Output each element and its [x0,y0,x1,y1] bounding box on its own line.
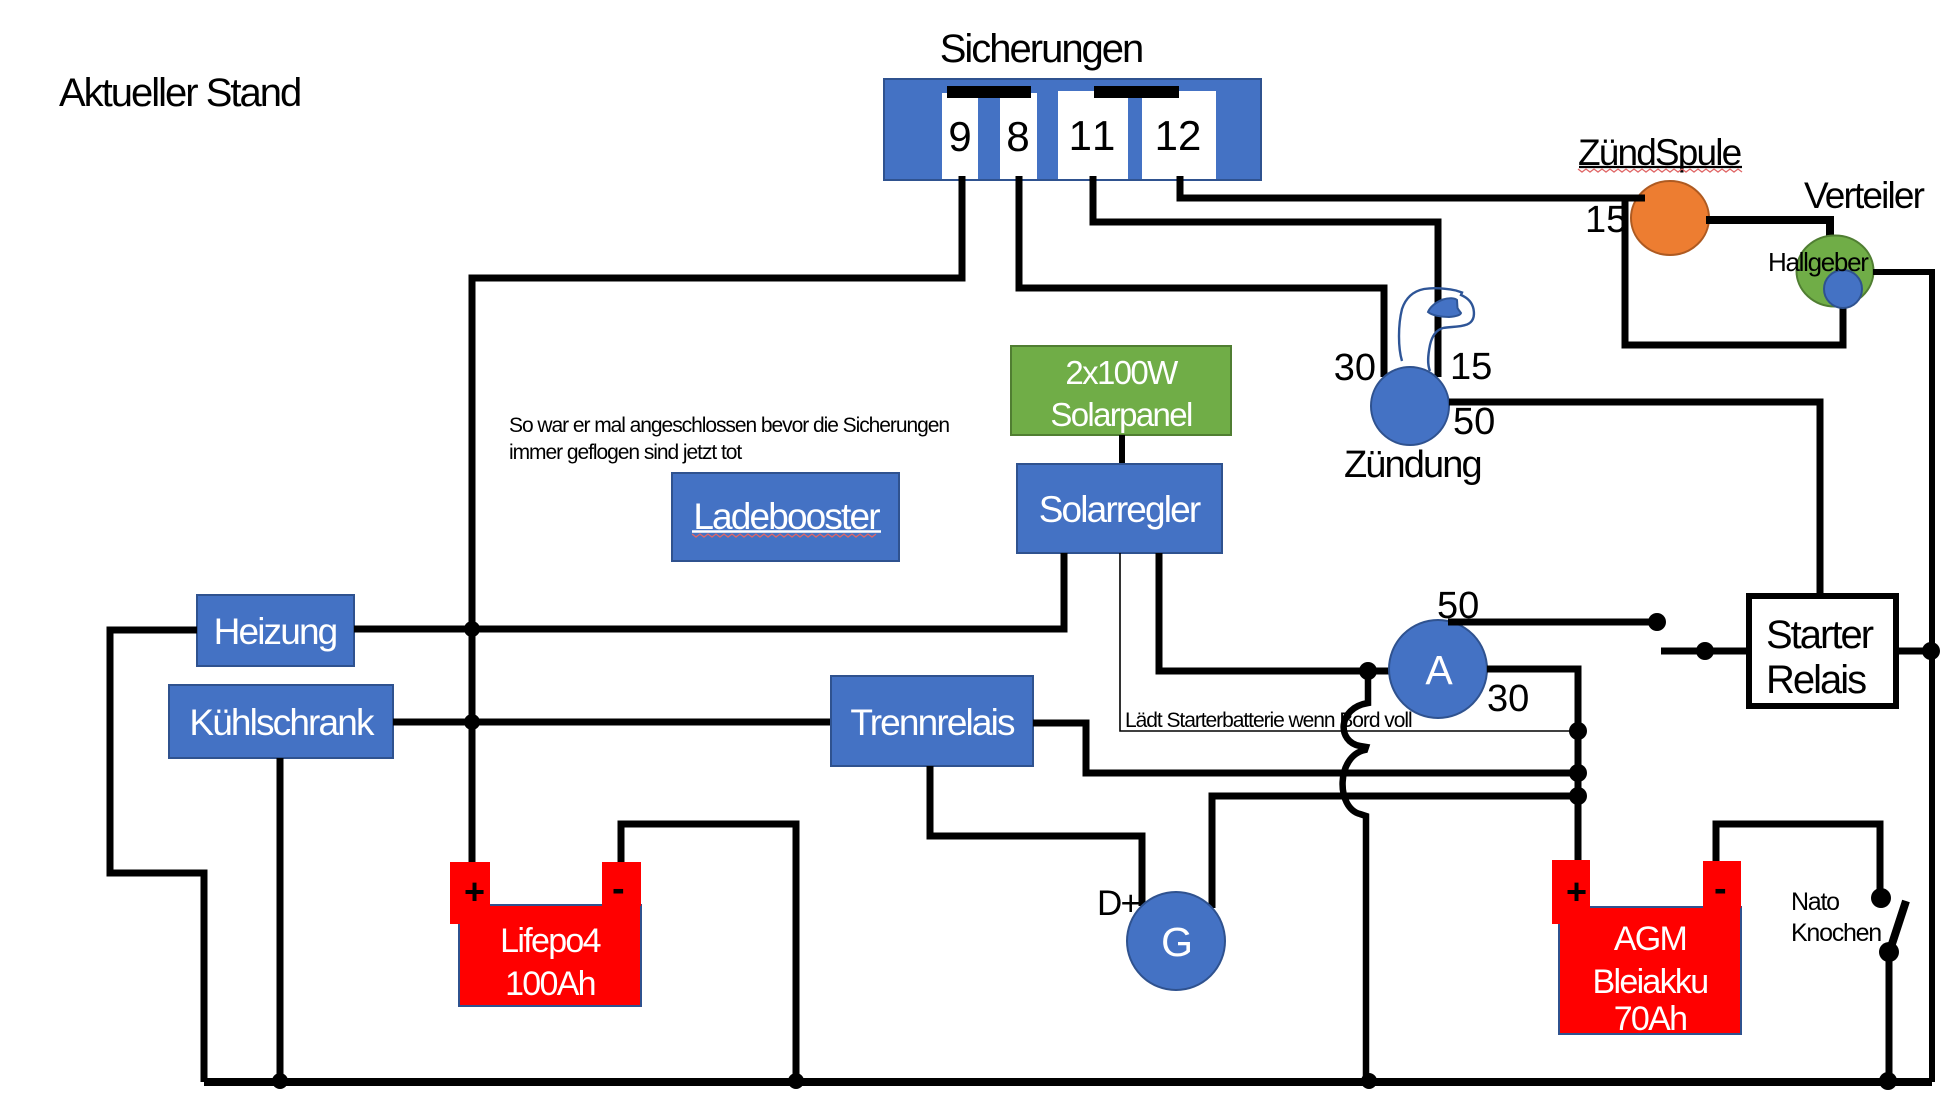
underline Ladebooster [692,530,881,532]
svg-text:Kühlschrank: Kühlschrank [189,702,375,743]
wire ammeter right to AGM plus [1487,669,1578,863]
svg-text:D+: D+ [1097,884,1140,923]
trennrelais box [831,676,1033,766]
wire end over coil [1620,195,1645,202]
wire Hallgeber to right rail [1873,272,1932,1082]
svg-text:Lädt Starterbatterie wenn Bord: Lädt Starterbatterie wenn Bord voll [1125,709,1412,732]
wire fuse12 to ZuendSpule [1180,176,1627,198]
wire heizung right to solarregler [354,553,1064,629]
junction dot starter rail [1922,642,1940,660]
svg-text:Solarregler: Solarregler [1039,489,1201,530]
svg-text:Aktueller Stand: Aktueller Stand [59,71,300,115]
wire panel to regler [1119,435,1125,464]
switch lever nato [1890,901,1906,950]
fuse bar 11-12 [1094,86,1179,98]
switch contact dot upper [1648,613,1666,631]
solar panel box [1011,346,1231,435]
wire kuehlschrank bottom to rail [277,758,284,1082]
svg-text:+: + [464,871,484,912]
lifepo4 plus tab [450,862,490,924]
switch segment to starter relais [1661,648,1749,655]
wire nato switch to rail [1886,952,1893,1082]
svg-text:Starter: Starter [1766,613,1874,657]
wire trennrelais bottom to G [930,766,1142,906]
svg-text:Heizung: Heizung [214,611,337,652]
switch dot nato bottom [1879,942,1899,962]
junction dot hop rail [1361,1073,1377,1089]
ignition circle Zuendung [1371,367,1449,445]
wire trennrelais right [1033,723,1578,773]
wire fuse8 to Zuendung 30 [1019,176,1384,377]
junction dot kuehlschrank rail [272,1073,288,1089]
fuse box body [884,79,1261,180]
junction dot kuehlschrank wire [464,714,480,730]
label 30 at Zuendung [1335,354,1374,381]
svg-text:G: G [1161,919,1191,965]
svg-text:+: + [1566,871,1586,912]
bottom rail [204,1078,1932,1086]
wire lifepo4 minus to rail [621,824,796,1082]
starter relais box [1749,596,1896,706]
wire starter relais right to rail [1896,648,1932,655]
junction dot heizung wire [464,621,480,637]
wire fuse11 to Zuendung 15 [1093,176,1438,377]
junction dot before ammeter [1359,662,1377,680]
hallgeber circle [1824,270,1862,308]
junction dot lifepo4 rail [788,1073,804,1089]
fuse 12 number [1158,121,1199,150]
underline ZuendSpule [1579,166,1742,168]
svg-text:A: A [1425,647,1453,693]
svg-text:Zündung: Zündung [1344,444,1481,486]
key drawing blob [1428,298,1461,317]
coil circle ZuendSpule [1631,181,1709,255]
wire ZuendSpule to Verteiler [1706,220,1830,240]
svg-text:-: - [1714,868,1726,910]
hop wire down to rail [1343,675,1368,1082]
fuse bar 9-8 [947,86,1031,98]
generator circle G [1127,892,1225,990]
label 15 at Zuendung [1453,353,1491,380]
agm plus tab [1552,860,1590,924]
key drawing outline [1399,288,1474,371]
svg-text:Nato: Nato [1791,888,1839,916]
fuse 11 number [1072,121,1114,150]
wire agm minus to switch [1716,824,1880,894]
wire Zuendung 50 to Starter Relais [1449,402,1820,596]
svg-text:2x100W: 2x100W [1065,354,1179,391]
solar regler box [1017,464,1222,553]
svg-text:immer geflogen sind jetzt tot: immer geflogen sind jetzt tot [509,441,742,464]
svg-text:Solarpanel: Solarpanel [1050,396,1192,433]
ladebooster box [672,473,899,561]
svg-text:Verteiler: Verteiler [1804,175,1925,216]
svg-text:Sicherungen: Sicherungen [940,27,1143,71]
svg-text:Trennrelais: Trennrelais [850,702,1015,743]
spellcheck squiggle under ZuendSpule [1578,169,1742,172]
label 15 at ZuendSpule [1588,206,1626,233]
svg-text:Knochen: Knochen [1791,919,1881,947]
fuse 9 number [950,122,969,152]
junction dot nato rail [1879,1072,1897,1090]
wire loop ZuendSpule down to Hallgeber [1625,195,1843,345]
wire G to AGM plus line [1212,796,1578,908]
spellcheck squiggle under Ladebooster [692,534,876,537]
junction dot G line [1569,787,1587,805]
switch dot nato top [1871,888,1891,908]
lifepo4 battery body [459,905,641,1006]
heizung box [197,595,354,666]
wire ammeter 50 to switch [1448,619,1656,626]
agm battery body [1559,907,1741,1034]
svg-text:100Ah: 100Ah [505,965,595,1003]
svg-text:Lifepo4: Lifepo4 [500,922,600,960]
svg-text:Hallgeber: Hallgeber [1768,247,1869,277]
wire heizung left to bottom rail [110,630,204,1082]
fuse 11 slot [1058,91,1128,179]
junction dot thin line [1569,722,1587,740]
wire fuse9 down-left to Lifepo4 plus [472,176,962,862]
svg-text:AGM: AGM [1614,920,1686,958]
wire kuehlschrank right to trennrelais [393,719,831,726]
fuse 8 slot [1000,93,1037,179]
distributor circle Verteiler [1797,236,1874,307]
svg-text:70Ah: 70Ah [1614,1000,1687,1038]
label 30 at ammeter [1488,685,1527,712]
fuse 12 slot [1142,91,1216,179]
agm minus tab [1703,861,1741,908]
lifepo4 minus tab [602,862,641,906]
svg-text:-: - [612,868,624,910]
wire solarregler right to ammeter [1159,553,1390,671]
label 50 at Zuendung [1455,408,1494,435]
junction dot trennrelais line [1569,764,1587,782]
switch contact dot lower [1696,642,1714,660]
fuse 9 slot [942,93,978,179]
svg-text:Bleiakku: Bleiakku [1593,963,1708,1001]
thin line laedt underline [1120,553,1578,731]
ammeter circle A [1389,620,1487,718]
kuehlschrank box [169,685,393,758]
svg-text:Relais: Relais [1766,658,1866,702]
fuse 8 number [1008,122,1028,152]
label 50 at ammeter [1439,592,1478,619]
svg-text:So war er mal angeschlossen be: So war er mal angeschlossen bevor die Si… [509,414,949,437]
